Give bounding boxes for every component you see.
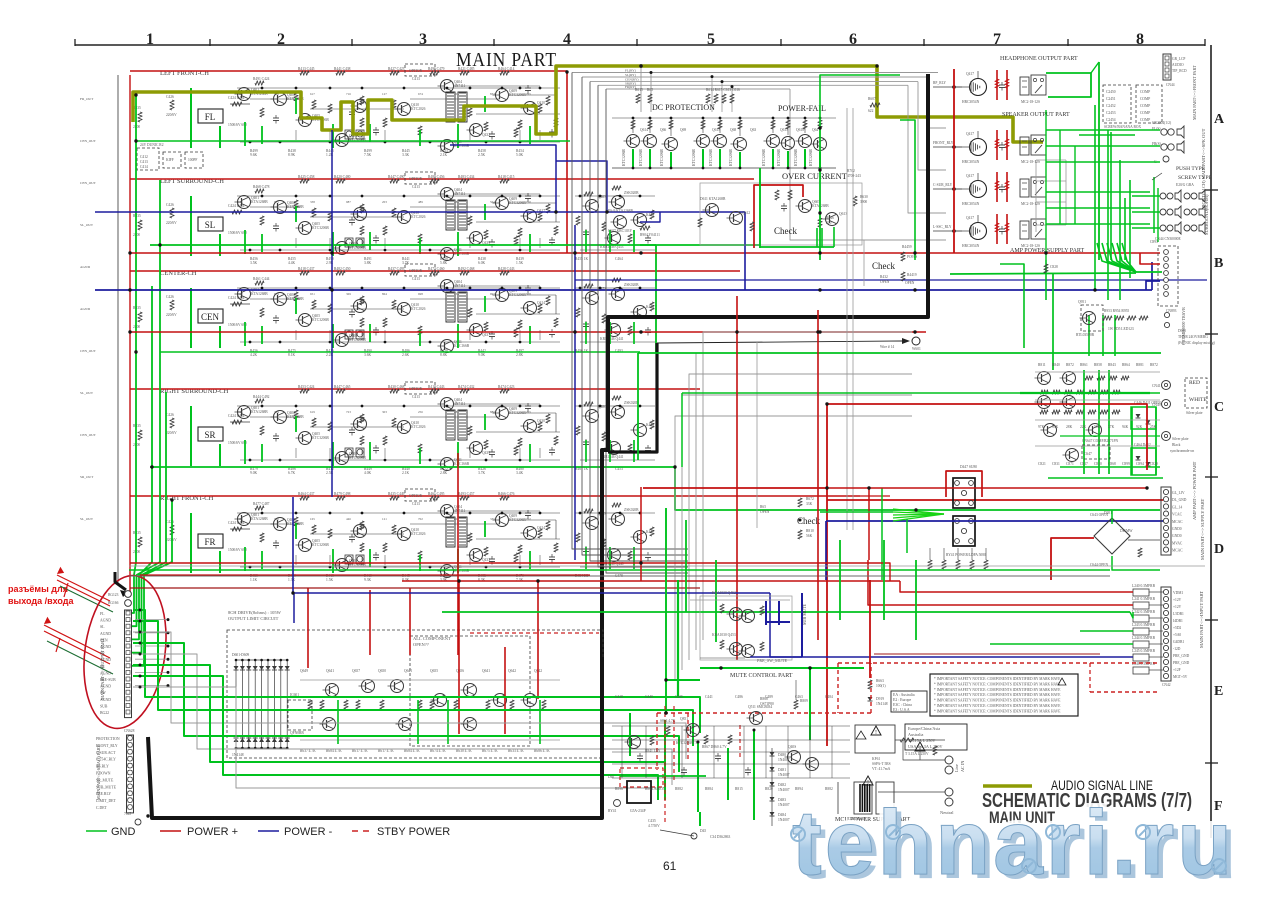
svg-text:R614 R615 C613 C616: R614 R615 C613 C616	[706, 88, 740, 92]
svg-text:Q439: Q439	[482, 451, 490, 455]
svg-text:8CH DRIVE(8ohms) : 105W: 8CH DRIVE(8ohms) : 105W	[228, 610, 282, 615]
svg-text:R432: R432	[880, 275, 888, 279]
svg-text:* IMPORTANT SAFETY NOTICE: COM: * IMPORTANT SAFETY NOTICE: COMPONENTS ID…	[934, 677, 1061, 681]
svg-text:R473 C460: R473 C460	[428, 267, 445, 271]
svg-text:3: 3	[419, 31, 427, 48]
svg-text:E20/G GRA: E20/G GRA	[1176, 183, 1194, 187]
svg-text:KTC3206B: KTC3206B	[729, 149, 733, 166]
svg-text:220/6V: 220/6V	[166, 221, 177, 225]
svg-text:FR: FR	[204, 537, 215, 547]
svg-text:FL: FL	[100, 612, 105, 616]
svg-text:A: A	[1214, 112, 1225, 127]
svg-text:384: 384	[454, 200, 459, 204]
svg-text:PRE_GND: PRE_GND	[1173, 661, 1190, 665]
svg-text:R4459: R4459	[902, 245, 912, 249]
svg-text:+12F: +12F	[1173, 668, 1181, 672]
svg-text:R420 C480: R420 C480	[334, 175, 351, 179]
svg-text:Q432: Q432	[482, 133, 490, 137]
svg-text:C899: C899	[1122, 462, 1130, 466]
svg-text:7.5K: 7.5K	[364, 153, 371, 157]
svg-text:1.5K: 1.5K	[516, 261, 523, 265]
svg-text:AGND: AGND	[80, 307, 91, 311]
svg-text:FL(RY): FL(RY)	[625, 69, 636, 73]
svg-text:5: 5	[707, 31, 715, 48]
svg-text:R882: R882	[825, 787, 833, 791]
svg-text:538: 538	[454, 292, 459, 296]
svg-text:HRC3054N: HRC3054N	[962, 160, 980, 164]
svg-text:QFN0RB: QFN0RB	[290, 731, 304, 735]
svg-text:765: 765	[526, 92, 531, 96]
svg-text:Q649: Q649	[300, 669, 308, 673]
svg-text:HRC3054N: HRC3054N	[962, 244, 980, 248]
svg-text:KTC3206B: KTC3206B	[709, 149, 713, 166]
svg-text:127: 127	[382, 92, 387, 96]
svg-text:1N4148: 1N4148	[876, 702, 888, 706]
svg-text:R684 4.7K: R684 4.7K	[326, 749, 342, 753]
svg-text:24V DUNIC R2: 24V DUNIC R2	[140, 143, 164, 147]
svg-text:2.8K: 2.8K	[440, 471, 447, 475]
svg-text:MC2-18-12S: MC2-18-12S	[1021, 202, 1040, 206]
svg-text:R872: R872	[1150, 363, 1158, 367]
svg-text:C893: C893	[1150, 240, 1158, 244]
svg-text:+12V: +12V	[1173, 598, 1182, 602]
svg-text:702: 702	[418, 517, 423, 521]
svg-text:DL_GND: DL_GND	[1172, 498, 1187, 502]
svg-text:864: 864	[382, 292, 387, 296]
svg-text:W601: W601	[912, 347, 921, 351]
svg-text:R435 C449: R435 C449	[388, 492, 405, 496]
svg-text:R492 C468: R492 C468	[458, 267, 475, 271]
svg-text:OPTION: OPTION	[409, 494, 423, 498]
svg-text:разъёмы для: разъёмы для	[8, 584, 68, 594]
svg-text:COMP: COMP	[1140, 97, 1150, 101]
svg-text:CN41: CN41	[1152, 384, 1161, 388]
svg-text:OS71P80: OS71P80	[760, 702, 774, 706]
svg-text:OPTION: OPTION	[409, 69, 423, 73]
svg-text:OPTION: OPTION	[409, 269, 423, 273]
svg-text:GND0: GND0	[1172, 534, 1182, 538]
svg-text:3.8K: 3.8K	[364, 261, 371, 265]
svg-text:KTC2026: KTC2026	[411, 532, 426, 536]
svg-text:R468 C478: R468 C478	[253, 185, 270, 189]
svg-text:256: 256	[418, 410, 423, 414]
svg-text:698: 698	[418, 292, 423, 296]
svg-text:E2 : Europe: E2 : Europe	[893, 698, 911, 702]
svg-text:303: 303	[454, 92, 459, 96]
svg-text:CEN_OUT: CEN_OUT	[80, 433, 97, 437]
svg-text:1N4007: 1N4007	[778, 788, 790, 792]
svg-text:R464 C437: R464 C437	[298, 492, 315, 496]
svg-text:Q618: Q618	[796, 128, 804, 132]
svg-text:KTC3206B: KTC3206B	[809, 149, 813, 166]
svg-text:C817: C817	[1080, 462, 1088, 466]
svg-text:R65: R65	[647, 88, 653, 92]
svg-text:7045: 7045	[124, 812, 131, 816]
svg-text:C871: C871	[1066, 462, 1074, 466]
svg-text:53K: 53K	[1052, 425, 1059, 429]
svg-text:8.1K: 8.1K	[288, 353, 295, 357]
svg-text:R882: R882	[675, 787, 683, 791]
svg-text:C413: C413	[140, 160, 148, 164]
svg-text:C829: C829	[1150, 462, 1158, 466]
svg-text:C412: C412	[140, 155, 148, 159]
svg-text:Q641: Q641	[404, 669, 412, 673]
svg-text:SCREW TYPE: SCREW TYPE	[1178, 175, 1213, 181]
svg-text:C821: C821	[1038, 462, 1046, 466]
svg-text:1: 1	[146, 31, 154, 48]
svg-text:100(1): 100(1)	[876, 684, 886, 688]
svg-text:R663: R663	[876, 679, 884, 683]
svg-text:RY41 POWER/LDPA 5080: RY41 POWER/LDPA 5080	[946, 553, 986, 557]
svg-text:C489: C489	[765, 695, 773, 699]
svg-text:R493 C457: R493 C457	[458, 492, 475, 496]
svg-text:203: 203	[382, 200, 387, 204]
svg-text:22K: 22K	[1080, 425, 1087, 429]
svg-text:EA : Australia: EA : Australia	[893, 693, 915, 697]
svg-text:SR: SR	[204, 430, 215, 440]
svg-text:D484: D484	[778, 813, 786, 817]
svg-text:C464: C464	[615, 257, 623, 261]
svg-text:Q614: Q614	[640, 128, 648, 132]
svg-text:R674 4.7K: R674 4.7K	[430, 749, 446, 753]
svg-text:C831: C831	[1052, 462, 1060, 466]
svg-text:R843: R843	[1108, 363, 1116, 367]
svg-text:R861: R861	[1080, 363, 1088, 367]
svg-text:L243 0.3MFRB: L243 0.3MFRB	[1132, 623, 1156, 627]
svg-text:369: 369	[346, 292, 351, 296]
svg-text:D45: D45	[700, 829, 706, 833]
svg-text:R617 4.7K: R617 4.7K	[378, 749, 394, 753]
svg-text:8: 8	[1136, 31, 1144, 48]
svg-text:5.8K: 5.8K	[440, 261, 447, 265]
svg-text:961: 961	[238, 410, 243, 414]
svg-text:R630 4.7K: R630 4.7K	[456, 749, 472, 753]
svg-text:R872: R872	[1066, 363, 1074, 367]
svg-text:KTC2026: KTC2026	[411, 307, 426, 311]
svg-text:2.8K: 2.8K	[516, 353, 523, 357]
svg-text:OPEN: OPEN	[880, 280, 890, 284]
svg-text:OMRON: OMRON	[652, 787, 666, 791]
svg-text:9.6K: 9.6K	[250, 153, 257, 157]
svg-text:FRONT_RLY: FRONT_RLY	[933, 141, 954, 145]
svg-text:489: 489	[418, 200, 423, 204]
svg-text:8.8K: 8.8K	[440, 353, 447, 357]
svg-text:R809: R809	[800, 699, 808, 703]
svg-text:SPEAKER OUTPUT PART: SPEAKER OUTPUT PART	[1002, 112, 1070, 118]
svg-text:R637 4.7K: R637 4.7K	[300, 749, 316, 753]
svg-text:C828: C828	[1050, 265, 1058, 269]
svg-text:Q650: Q650	[378, 669, 386, 673]
svg-text:446: 446	[346, 517, 351, 521]
svg-text:L240 0.3MFRB: L240 0.3MFRB	[1132, 584, 1156, 588]
svg-text:Black: Black	[1172, 443, 1181, 447]
svg-text:SL: SL	[100, 625, 105, 629]
svg-text:674: 674	[274, 292, 279, 296]
svg-text:R474 C423: R474 C423	[498, 385, 515, 389]
svg-text:POWER -: POWER -	[284, 826, 333, 838]
svg-text:R435: R435	[133, 531, 141, 535]
svg-text:C644 OPEN: C644 OPEN	[1090, 563, 1108, 567]
svg-text:697: 697	[490, 292, 495, 296]
svg-text:KRA1030 Q452: KRA1030 Q452	[712, 591, 736, 595]
svg-text:Q657: Q657	[352, 669, 360, 673]
svg-text:C2450: C2450	[1106, 90, 1116, 94]
svg-text:SR_OUT: SR_OUT	[80, 475, 94, 479]
svg-text:R410 C443: R410 C443	[428, 385, 445, 389]
svg-text:9.3K: 9.3K	[364, 578, 371, 582]
svg-text:D482: D482	[778, 783, 786, 787]
svg-text:SL_OUT: SL_OUT	[80, 223, 94, 227]
svg-text:338: 338	[310, 200, 315, 204]
svg-text:Q64: Q64	[812, 128, 818, 132]
svg-text:619: 619	[310, 410, 315, 414]
svg-text:R630: R630	[860, 195, 868, 199]
svg-text:R461 C495: R461 C495	[428, 492, 445, 496]
svg-text:Q612: Q612	[742, 211, 750, 215]
svg-text:VT: 41.7mA: VT: 41.7mA	[872, 767, 891, 771]
svg-text:Q851: Q851	[680, 717, 688, 721]
svg-text:50K: 50K	[1094, 425, 1101, 429]
svg-text:1.1K: 1.1K	[250, 578, 257, 582]
svg-text:Europe/China/Asia: Europe/China/Asia	[908, 726, 940, 731]
svg-text:25K: 25K	[1150, 425, 1157, 429]
svg-text:B: B	[1214, 256, 1223, 271]
svg-text:R491 C424: R491 C424	[253, 77, 270, 81]
svg-text:CN44: CN44	[1166, 83, 1175, 87]
svg-text:Q417: Q417	[966, 174, 974, 178]
svg-text:SL(RY): SL(RY)	[625, 73, 636, 77]
svg-text:Silver plate: Silver plate	[1186, 411, 1203, 415]
svg-text:Q410: Q410	[537, 101, 545, 105]
svg-text:KTC3206B: KTC3206B	[639, 149, 643, 166]
svg-text:CEN_OUT: CEN_OUT	[80, 139, 97, 143]
svg-text:COMP: COMP	[1140, 90, 1150, 94]
svg-text:E: E	[1214, 684, 1223, 699]
svg-text:R489 C456: R489 C456	[428, 175, 445, 179]
svg-text:33K: 33K	[806, 502, 813, 506]
svg-text:COMP: COMP	[1140, 104, 1150, 108]
svg-text:220: 220	[826, 221, 832, 225]
svg-text:702: 702	[526, 517, 531, 521]
svg-text:94K: 94K	[1122, 425, 1129, 429]
svg-text:622: 622	[868, 109, 874, 113]
svg-text:* IMPORTANT SAFETY NOTICE: COM: * IMPORTANT SAFETY NOTICE: COMPONENTS ID…	[934, 704, 1061, 708]
svg-text:* IMPORTANT SAFETY NOTICE: COM: * IMPORTANT SAFETY NOTICE: COMPONENTS ID…	[934, 693, 1061, 697]
svg-text:(For NIC display mixing): (For NIC display mixing)	[1178, 341, 1216, 345]
svg-text:2.1K: 2.1K	[402, 471, 409, 475]
svg-text:92K: 92K	[1136, 425, 1143, 429]
svg-text:CN42: CN42	[1162, 683, 1171, 687]
svg-text:R496 C479: R496 C479	[428, 67, 445, 71]
svg-text:R430 C468: R430 C468	[388, 385, 405, 389]
svg-text:GND: GND	[111, 826, 136, 838]
svg-text:KTC3206B: KTC3206B	[622, 149, 626, 166]
svg-text:Q613: Q613	[839, 212, 847, 216]
svg-text:R702: R702	[847, 169, 855, 173]
svg-text:R686 4.7K: R686 4.7K	[534, 749, 550, 753]
svg-text:R672: R672	[806, 497, 814, 501]
svg-text:723: 723	[346, 410, 351, 414]
svg-text:FR_OUT: FR_OUT	[80, 97, 94, 101]
svg-text:* IMPORTANT SAFETY NOTICE: COM: * IMPORTANT SAFETY NOTICE: COMPONENTS ID…	[934, 688, 1061, 692]
svg-text:KTA1268B: KTA1268B	[251, 410, 268, 414]
svg-text:8.9K: 8.9K	[288, 153, 295, 157]
svg-text:C424 R424: C424 R424	[228, 521, 245, 525]
svg-text:9.0K: 9.0K	[250, 471, 257, 475]
svg-text:D481: D481	[778, 768, 786, 772]
svg-text:Q424: Q424	[537, 526, 545, 530]
svg-text:C413: C413	[412, 77, 420, 81]
svg-text:tehnari.ru: tehnari.ru	[792, 792, 1235, 894]
svg-text:C-SUR_RLY: C-SUR_RLY	[933, 183, 953, 187]
svg-text:C810: C810	[1094, 462, 1102, 466]
svg-text:220/6V: 220/6V	[166, 113, 177, 117]
svg-text:ZSK020B: ZSK020B	[624, 283, 639, 287]
svg-text:KTC3206B: KTC3206B	[312, 318, 329, 322]
svg-text:181: 181	[238, 200, 243, 204]
svg-text:C868: C868	[1108, 462, 1116, 466]
svg-text:833: 833	[490, 92, 495, 96]
svg-text:CRYMD0000 TRSVR: CRYMD0000 TRSVR	[1181, 307, 1186, 345]
svg-text:Q417: Q417	[966, 72, 974, 76]
svg-text:AUDIO: AUDIO	[1172, 63, 1184, 67]
svg-text:HRC3054N: HRC3054N	[962, 100, 980, 104]
svg-text:4.4K: 4.4K	[288, 261, 295, 265]
svg-text:220/6V: 220/6V	[166, 431, 177, 435]
svg-text:KTC2026: KTC2026	[411, 425, 426, 429]
svg-text:CN44 CN30000E: CN44 CN30000E	[1155, 237, 1181, 241]
svg-text:750: 750	[526, 200, 531, 204]
svg-text:C418: C418	[615, 695, 623, 699]
svg-text:4700-243: 4700-243	[847, 174, 861, 178]
svg-text:R453 C424: R453 C424	[298, 385, 315, 389]
svg-text:Australia: Australia	[908, 732, 923, 737]
svg-text:FL: FL	[205, 112, 216, 122]
svg-text:Q40S: Q40S	[788, 745, 796, 749]
svg-text:KRC166B: KRC166B	[454, 344, 470, 348]
svg-text:KTA1268B: KTA1268B	[251, 200, 268, 204]
svg-text:R684 4.7K: R684 4.7K	[404, 749, 420, 753]
svg-text:KTA1268B: KTA1268B	[251, 292, 268, 296]
svg-text:I4DB1: I4DB1	[1173, 619, 1183, 623]
svg-text:Wire # 14: Wire # 14	[880, 345, 894, 349]
svg-text:4.2K: 4.2K	[250, 353, 257, 357]
svg-text:SUB MUTE: SUB MUTE	[802, 604, 807, 625]
svg-text:KTC3206B: KTC3206B	[794, 149, 798, 166]
svg-text:CEN: CEN	[201, 312, 220, 322]
svg-text:C425: C425	[675, 695, 683, 699]
svg-text:R884: R884	[705, 787, 713, 791]
svg-text:R896: R896	[615, 787, 623, 791]
svg-text:674: 674	[418, 92, 423, 96]
svg-text:4: 4	[563, 31, 571, 48]
svg-text:617: 617	[310, 92, 315, 96]
svg-text:R904 Y04111: R904 Y04111	[640, 233, 660, 237]
svg-text:220/6V: 220/6V	[166, 313, 177, 317]
svg-text:WHITE: WHITE	[1189, 397, 1207, 403]
svg-text:R428 C443: R428 C443	[498, 267, 515, 271]
svg-text:KTC3206B: KTC3206B	[312, 543, 329, 547]
svg-text:AGND: AGND	[80, 265, 91, 269]
svg-text:C647: C647	[1084, 452, 1092, 456]
svg-text:C426: C426	[166, 203, 174, 207]
svg-text:C463: C463	[795, 695, 803, 699]
svg-text:MCAC: MCAC	[1172, 549, 1183, 553]
svg-text:R607: R607	[868, 97, 876, 101]
svg-text:Q615: Q615	[712, 128, 720, 132]
svg-text:265: 265	[526, 410, 531, 414]
svg-text:C413: C413	[412, 502, 420, 506]
svg-text:Q63: Q63	[750, 128, 756, 132]
svg-text:D480: D480	[778, 753, 786, 757]
svg-text:KF61: KF61	[872, 757, 880, 761]
svg-text:2.5K: 2.5K	[478, 153, 485, 157]
svg-text:C441: C441	[705, 695, 713, 699]
svg-text:ZSK020B: ZSK020B	[624, 191, 639, 195]
svg-text:OPEN??: OPEN??	[413, 642, 429, 647]
svg-text:GR_LCP: GR_LCP	[1172, 57, 1185, 61]
svg-text:Q430: Q430	[537, 419, 545, 423]
svg-text:MGT+5V: MGT+5V	[1173, 675, 1188, 679]
svg-text:MC2-18-12S: MC2-18-12S	[1021, 244, 1040, 248]
svg-text:BG123: BG123	[108, 593, 119, 597]
svg-text:OVER CURRENT: OVER CURRENT	[782, 171, 848, 181]
svg-text:R435: R435	[133, 424, 141, 428]
svg-text:R479 C498: R479 C498	[334, 492, 351, 496]
svg-text:CN647 COMP.B2571PN: CN647 COMP.B2571PN	[1082, 439, 1119, 443]
svg-text:BG22: BG22	[100, 711, 109, 715]
svg-text:482: 482	[454, 410, 459, 414]
svg-text:R437 C493: R437 C493	[388, 267, 405, 271]
svg-text:R841 LSY: R841 LSY	[645, 749, 661, 753]
svg-text:MVAC: MVAC	[1172, 541, 1183, 545]
svg-text:SCREW/BANANA BOX: SCREW/BANANA BOX	[1104, 125, 1141, 129]
svg-text:Check: Check	[774, 226, 797, 236]
svg-text:TIP_RCD: TIP_RCD	[1172, 69, 1187, 73]
svg-text:754: 754	[274, 410, 279, 414]
svg-text:R483 C434: R483 C434	[458, 175, 475, 179]
svg-text:C2453: C2453	[1106, 111, 1116, 115]
svg-text:C643 OPEN: C643 OPEN	[1090, 513, 1108, 517]
svg-text:+5D2: +5D2	[1173, 626, 1181, 630]
svg-text:Q414: Q414	[537, 301, 545, 305]
svg-text:E3C : China: E3C : China	[893, 703, 912, 707]
svg-text:Q641: Q641	[482, 669, 490, 673]
svg-text:KRA1030 Q453: KRA1030 Q453	[712, 633, 736, 637]
svg-text:Q69: Q69	[680, 128, 686, 132]
svg-text:28K: 28K	[1066, 425, 1073, 429]
svg-text:R418 C415: R418 C415	[498, 175, 515, 179]
svg-text:165: 165	[310, 517, 315, 521]
svg-text:THNR 24OVMERG: THNR 24OVMERG	[1178, 335, 1208, 339]
svg-text:L244 0.3MFRB: L244 0.3MFRB	[1132, 636, 1156, 640]
svg-text:R435: R435	[133, 306, 141, 310]
svg-text:R474 C432: R474 C432	[458, 385, 475, 389]
svg-text:508: 508	[526, 292, 531, 296]
svg-text:Q642: Q642	[508, 669, 516, 673]
svg-text:C426: C426	[166, 295, 174, 299]
svg-text:AMP PART<--> POWER PART: AMP PART<--> POWER PART	[1192, 461, 1197, 520]
svg-text:KTC3206B: KTC3206B	[762, 149, 766, 166]
svg-text:ZSK020B: ZSK020B	[624, 401, 639, 405]
svg-text:3.4K: 3.4K	[516, 471, 523, 475]
svg-text:R461 C444: R461 C444	[253, 277, 270, 281]
svg-text:RTL035P0R: RTL035P0R	[1076, 333, 1095, 337]
svg-text:R894: R894	[795, 787, 803, 791]
svg-text:353: 353	[238, 517, 243, 521]
svg-text:1N4007: 1N4007	[778, 818, 790, 822]
svg-text:R466 C476: R466 C476	[498, 492, 515, 496]
